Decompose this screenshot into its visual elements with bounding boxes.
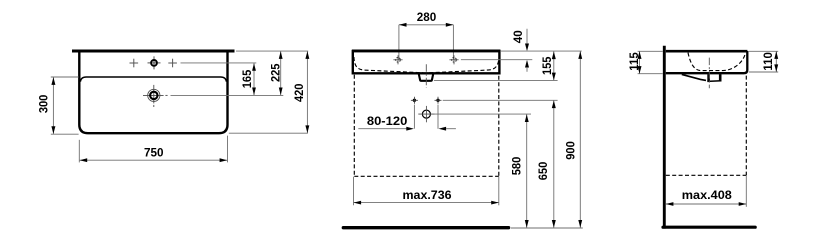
dimension 155 arrows xyxy=(552,52,556,60)
dimension 165 arrows xyxy=(252,63,256,71)
dimension 280 line xyxy=(399,24,454,26)
dimension 115 arrows xyxy=(638,51,642,59)
plan view: drain crosshair xyxy=(143,94,164,96)
svg-text:165: 165 xyxy=(240,69,254,88)
front view: floor line xyxy=(343,226,508,229)
dimension 650 line xyxy=(553,101,555,228)
front view: drain centerline xyxy=(425,64,427,87)
front view: installation space (dashed outline) xyxy=(353,75,355,177)
dimension max.736 line xyxy=(354,202,499,204)
svg-text:580: 580 xyxy=(509,156,523,175)
dimension 225 arrows xyxy=(279,51,283,59)
plan view: extension lines for dim 300 xyxy=(51,76,79,78)
plan view: right alternative faucet mark (+) xyxy=(168,62,177,64)
side view: hidden bowl profile (dashed) xyxy=(688,53,745,71)
dimension 300 arrows xyxy=(51,77,55,85)
front view: drain outlet xyxy=(419,74,433,81)
side view: basin top edge xyxy=(666,50,748,53)
plan view: faucet hole crosshair xyxy=(148,62,161,64)
side view: extension lines for dim 110 xyxy=(749,50,778,52)
dimension 115 line xyxy=(639,51,641,73)
side view: basin body outline xyxy=(666,51,748,73)
front view: extension lines for dim 280 xyxy=(398,25,400,60)
front view: supply drop lines xyxy=(413,105,415,129)
dimension 280 arrows xyxy=(399,23,407,27)
plan view: extension line faucet row to dim 165 xyxy=(181,62,257,64)
dimension 155 line xyxy=(553,52,555,81)
side view: wall line xyxy=(663,46,666,229)
dimension max.408 line xyxy=(666,203,747,205)
side view: drain centerline xyxy=(708,58,710,89)
svg-text:225: 225 xyxy=(268,63,282,82)
front view: left supply connection point xyxy=(413,99,416,102)
svg-text:max.408: max.408 xyxy=(682,188,732,202)
svg-text:max.736: max.736 xyxy=(403,188,452,202)
plan view: extension line top edge to dim 420 xyxy=(236,50,308,52)
dimension 580 line xyxy=(526,114,528,227)
svg-text:80-120: 80-120 xyxy=(367,114,408,128)
plan view: extension line drain row to dim 225 xyxy=(171,94,284,96)
front view: extension drain to dim 155 xyxy=(434,79,558,81)
svg-text:40: 40 xyxy=(511,30,525,43)
side view: drain tray outline xyxy=(682,74,706,80)
dimension 80-120 right tail and arrow xyxy=(446,128,456,130)
front view: basin top edge (thick) xyxy=(352,49,500,52)
dimension 225 line xyxy=(280,51,282,95)
dimension 80-120 left tail and arrow xyxy=(358,128,407,130)
front view: right supply connection point xyxy=(436,99,439,102)
front view: bottom extension line xyxy=(511,227,583,229)
dimension 580 arrows xyxy=(525,114,529,122)
front view: extension waste row to dim 580 xyxy=(435,113,532,115)
front view: hidden bowl bottom (dashed) xyxy=(354,55,499,73)
front view: basin body outline xyxy=(353,51,500,73)
dimension 110 line xyxy=(775,51,777,72)
svg-text:750: 750 xyxy=(144,145,164,159)
svg-text:280: 280 xyxy=(417,10,437,24)
svg-text:155: 155 xyxy=(540,56,554,75)
dimension 900 line xyxy=(579,51,581,227)
side view: extension line for dim max.408 xyxy=(745,176,747,207)
plan view: extension lines for dim 750 xyxy=(78,140,80,163)
plan view: faucet hole ring xyxy=(151,60,157,66)
dimension 165 line xyxy=(253,63,255,95)
side view: installation space (dashed outline) xyxy=(745,76,747,176)
front view: extension lines for dim max.736 xyxy=(353,177,355,206)
svg-text:650: 650 xyxy=(536,161,550,180)
svg-text:900: 900 xyxy=(564,141,578,160)
svg-text:115: 115 xyxy=(627,52,641,71)
front view: extension supply row to dim 650 xyxy=(443,99,558,101)
plan view: wall line (thick top edge) xyxy=(72,50,235,53)
svg-text:300: 300 xyxy=(36,94,50,113)
dimension max.408 arrows xyxy=(666,202,674,206)
dimension 900 arrows xyxy=(578,51,582,59)
dimension 110 arrows xyxy=(774,51,778,59)
svg-text:110: 110 xyxy=(761,52,775,71)
dimension max.736 arrows xyxy=(354,201,362,205)
dimension 300 line xyxy=(52,77,54,134)
front view: right faucet hole symbol xyxy=(452,58,457,63)
dimension 420 line xyxy=(306,51,308,133)
front view: extension faucet row to dim 40 xyxy=(461,59,532,61)
plan view: drain hole ring xyxy=(150,92,157,99)
svg-text:420: 420 xyxy=(292,83,306,102)
dimension 750 arrows xyxy=(80,158,88,162)
plan view: extension line bottom edge to dim 420 xyxy=(229,132,308,134)
front view: shared top extension line xyxy=(501,50,582,52)
side view: floor line xyxy=(663,226,755,229)
plan view: drain outer circle xyxy=(148,89,160,101)
front view: waste connection symbol xyxy=(422,110,430,118)
front view: left faucet hole symbol xyxy=(396,58,401,63)
plan view: basin outer outline xyxy=(79,52,227,133)
dimension 420 arrows xyxy=(305,51,309,59)
plan view: basin rim inner edge xyxy=(80,77,226,82)
dimension 750 line xyxy=(80,159,228,161)
dimension 650 arrows xyxy=(552,101,556,109)
side view: drain pipe xyxy=(707,74,710,81)
plan view: left alternative faucet mark (+) xyxy=(130,62,139,64)
side view: extension lines for dim 115 xyxy=(638,50,663,52)
dimension 40 tails and arrows xyxy=(526,29,528,44)
